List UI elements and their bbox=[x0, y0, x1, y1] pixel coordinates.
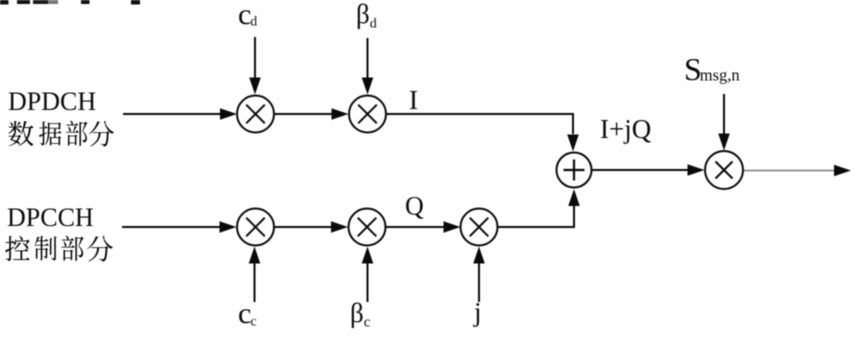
multiplier M5 (j) bbox=[461, 209, 498, 246]
cropped text remnant 2 bbox=[17, 0, 30, 4]
cropped text remnant 1 bbox=[0, 0, 9, 5]
svg-text:DPCCH: DPCCH bbox=[7, 203, 94, 232]
svg-text:j: j bbox=[473, 297, 482, 327]
svg-text:Q: Q bbox=[405, 192, 424, 221]
wire c_c into M3 bbox=[249, 247, 261, 303]
svg-text:I+jQ: I+jQ bbox=[600, 114, 652, 144]
wire M3 to M4 bbox=[274, 221, 348, 233]
cropped text remnant 3 bbox=[33, 0, 48, 4]
wire adder to scrambler bbox=[592, 164, 705, 176]
wire beta_c into M4 bbox=[362, 247, 374, 303]
multiplier M1 (spreading c_d) bbox=[237, 96, 274, 133]
svg-text:I: I bbox=[409, 85, 418, 115]
multiplier M3 (spreading c_c) bbox=[237, 209, 274, 246]
wire output bbox=[744, 165, 851, 177]
svg-text:DPDCH: DPDCH bbox=[8, 87, 96, 116]
cropped text remnant 4 bbox=[81, 0, 90, 4]
label 控制部分 (control part) bbox=[5, 236, 113, 262]
adder (I+jQ summer) bbox=[557, 153, 592, 188]
wire M1 to M2 bbox=[274, 108, 349, 120]
multiplier M2 (gain beta_d) bbox=[349, 96, 386, 133]
wire S_msg,n into scrambler bbox=[718, 94, 730, 151]
cropped text remnant 5 bbox=[131, 0, 140, 5]
wire beta_d into M2 bbox=[362, 38, 374, 95]
svg-text:cd: cd bbox=[238, 0, 257, 31]
wire I branch to adder bbox=[386, 114, 579, 152]
wire j into M5 bbox=[473, 247, 485, 303]
multiplier M6 (scrambling S_msg,n) bbox=[705, 151, 743, 189]
wire DPDCH input bbox=[123, 108, 237, 120]
svg-text:βc: βc bbox=[350, 298, 371, 331]
wire DPCCH input bbox=[122, 221, 237, 233]
wire c_d into M1 bbox=[249, 37, 261, 95]
label 数据部分 (data part) bbox=[8, 120, 114, 146]
wire M4 to M5 bbox=[386, 221, 461, 233]
svg-text:βd: βd bbox=[356, 0, 377, 32]
multiplier M4 (gain beta_c) bbox=[349, 209, 386, 246]
svg-text:Smsg,n: Smsg,n bbox=[684, 51, 740, 87]
wire Q branch to adder bbox=[498, 189, 580, 227]
